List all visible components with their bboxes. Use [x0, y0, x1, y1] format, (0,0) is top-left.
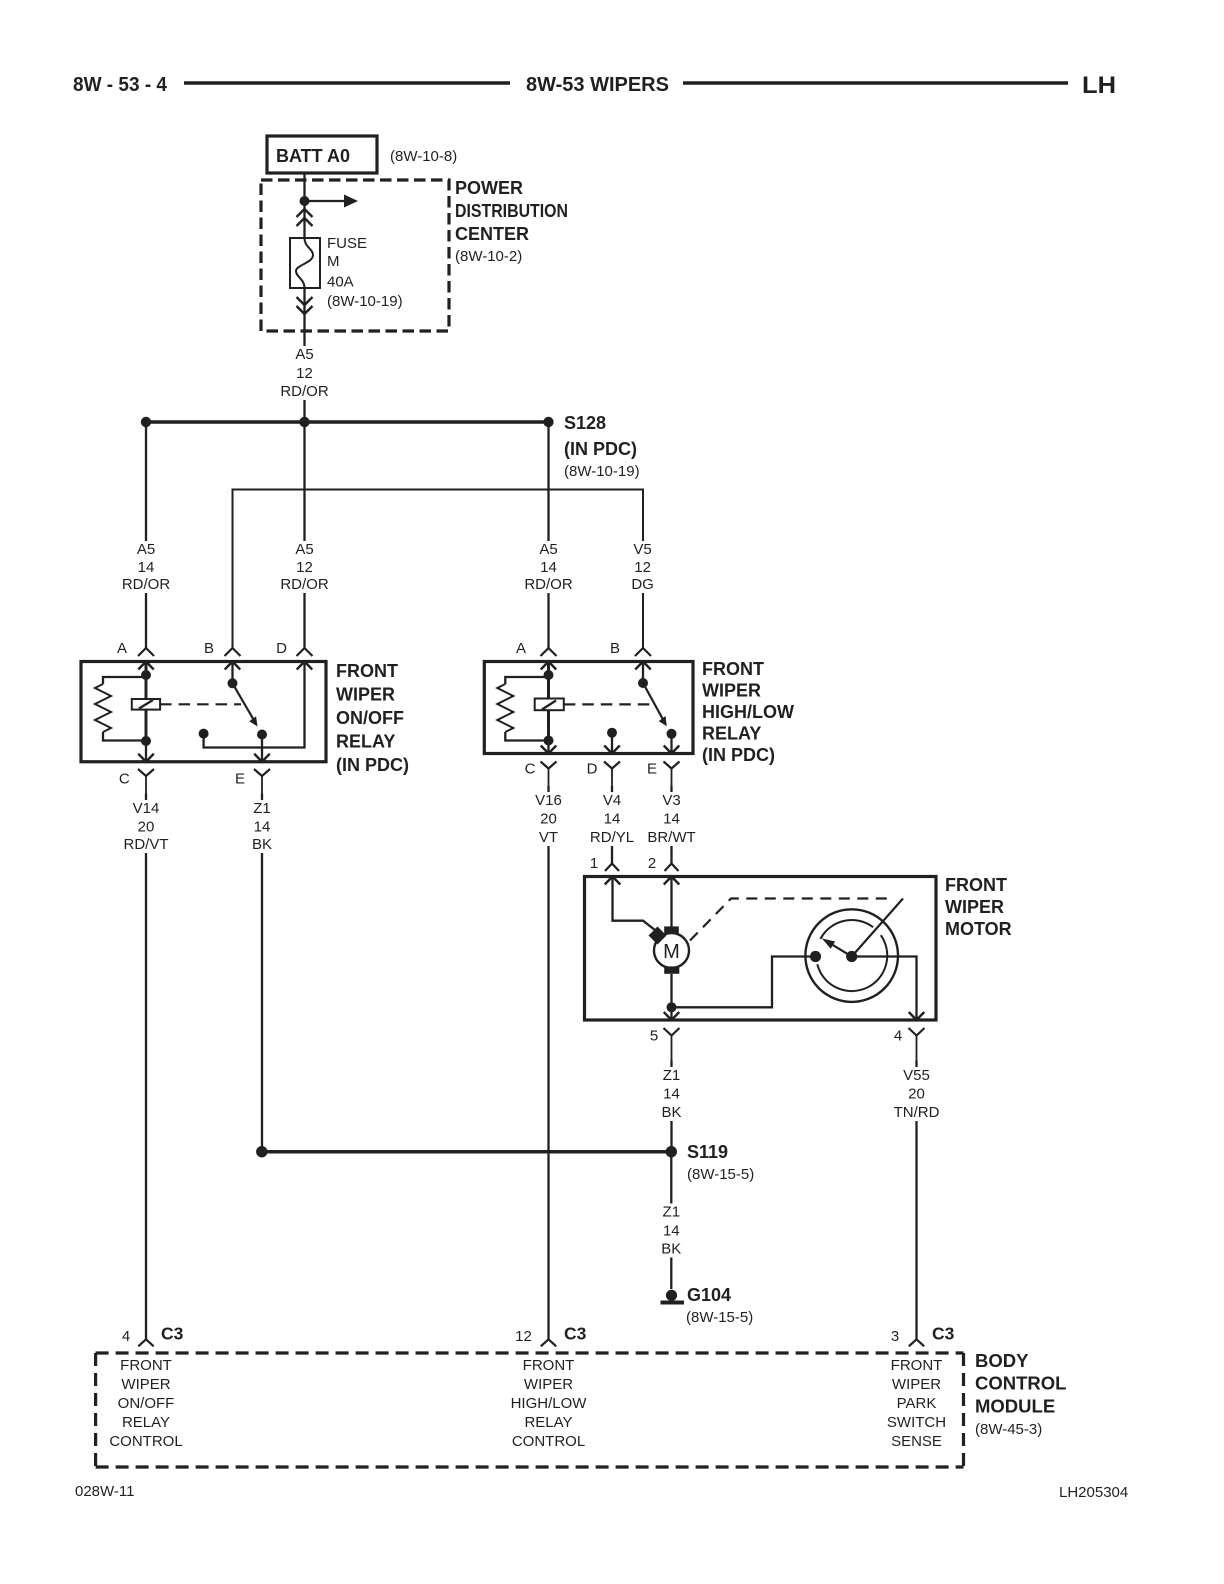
svg-text:FRONT: FRONT — [702, 659, 764, 679]
label POWER DISTRIBUTION CENTER — [455, 178, 568, 265]
label FRONT WIPER ON/OFF RELAY (IN PDC) — [336, 661, 409, 775]
wire S128 to relay2 pin A — [547, 422, 549, 648]
relay1 wire contact to pin D — [204, 662, 313, 748]
svg-text:S119: S119 — [687, 1142, 728, 1162]
svg-text:CENTER: CENTER — [455, 224, 529, 244]
svg-text:V5: V5 — [633, 541, 651, 558]
svg-text:12: 12 — [296, 559, 313, 576]
svg-text:M: M — [327, 253, 340, 270]
svg-text:LH205304: LH205304 — [1059, 1484, 1128, 1501]
splice S119 bus line — [262, 1150, 672, 1154]
svg-text:VT: VT — [539, 829, 558, 846]
relay1 coil junction dot top — [141, 670, 151, 680]
page number 8W-53-4 — [73, 74, 168, 96]
splice S128 bus line — [146, 420, 549, 424]
wire label V3 14 BR/WT — [646, 792, 697, 846]
svg-text:FUSE: FUSE — [327, 235, 367, 252]
header rule left — [184, 81, 510, 84]
relay2 resistor — [497, 677, 548, 741]
svg-text:V4: V4 — [603, 792, 621, 809]
wire label Z1 14 BK — [250, 800, 274, 853]
svg-text:RD/YL: RD/YL — [590, 829, 634, 846]
svg-text:M: M — [663, 941, 680, 963]
svg-text:RELAY: RELAY — [702, 724, 761, 744]
relay2 coil — [535, 699, 564, 711]
relay1 pin D connector — [276, 640, 312, 657]
motor pin 1 wire with arrow — [605, 877, 655, 931]
wire V16 20 VT relay2 C to BCM pin 12 — [547, 786, 549, 1339]
motor pin 5 connector — [650, 1028, 680, 1061]
relay1 contact dot E — [257, 730, 267, 740]
wire Z1 14 BK motor pin 5 to splice S119 — [670, 1061, 672, 1152]
svg-text:V55: V55 — [903, 1067, 930, 1084]
svg-text:A5: A5 — [539, 541, 557, 558]
svg-text:(IN PDC): (IN PDC) — [702, 745, 775, 765]
svg-text:RD/OR: RD/OR — [122, 576, 171, 593]
wire label A5 12 RD/OR — [279, 346, 330, 400]
label FRONT WIPER HIGH/LOW RELAY CONTROL — [511, 1357, 588, 1450]
svg-text:WIPER: WIPER — [945, 897, 1004, 917]
motor pin 2 wire with arrow — [664, 877, 680, 928]
svg-text:(8W-45-3): (8W-45-3) — [975, 1421, 1042, 1438]
wire label V16 20 VT — [532, 792, 565, 846]
svg-text:DG: DG — [631, 576, 654, 593]
park switch wiper arm — [822, 938, 852, 956]
svg-text:TN/RD: TN/RD — [894, 1104, 940, 1121]
relay1 switch arm — [233, 683, 258, 726]
wire Z1 14 BK S119 to ground — [670, 1152, 672, 1289]
wire V3 14 BR/WT relay2 E to motor pin 2 — [670, 786, 672, 864]
svg-text:14: 14 — [663, 1086, 680, 1103]
svg-text:HIGH/LOW: HIGH/LOW — [702, 702, 794, 722]
svg-text:RD/OR: RD/OR — [280, 576, 329, 593]
svg-text:BK: BK — [661, 1241, 681, 1258]
male connector chevrons above fuse — [297, 209, 313, 226]
svg-text:8W - 53 - 4: 8W - 53 - 4 — [73, 74, 168, 96]
motor pin 4 connector — [894, 1028, 925, 1061]
svg-text:CONTROL: CONTROL — [512, 1433, 585, 1450]
wire fuse to PDC exit — [303, 288, 305, 417]
svg-text:WIPER: WIPER — [524, 1376, 573, 1393]
relay1 contact dot NC — [199, 729, 209, 739]
junction dot S119 — [666, 1146, 677, 1157]
svg-text:3: 3 — [891, 1328, 899, 1345]
wire label Z1 14 BK lower — [659, 1204, 683, 1258]
battery feed BATT A0 — [267, 136, 377, 173]
BCM pin 12 connector C3 — [515, 1324, 586, 1347]
motor pin 1 connector — [590, 855, 619, 872]
relay2 pin D wire with arrow — [604, 733, 620, 754]
fuse M 40A — [290, 238, 320, 288]
relay U2 FRONT WIPER HIGH/LOW RELAY box — [484, 662, 693, 754]
label FRONT WIPER PARK SWITCH SENSE — [887, 1357, 946, 1450]
svg-text:(8W-10-2): (8W-10-2) — [455, 248, 522, 265]
relay1 pin C wire with arrow — [138, 741, 154, 762]
fuse labels FUSE M 40A (8W-10-19) — [327, 235, 403, 310]
label G104 (8W-15-5) — [686, 1285, 753, 1326]
relay2 coil junction dot bottom — [544, 736, 554, 746]
relay1 coil junction dot bottom — [141, 736, 151, 746]
svg-text:RELAY: RELAY — [524, 1414, 572, 1431]
svg-text:MODULE: MODULE — [975, 1396, 1055, 1417]
relay U1 FRONT WIPER ON/OFF RELAY box — [81, 662, 326, 762]
wire A5 12 RD/OR bus to relay1 pin D — [303, 422, 305, 648]
wire branch to relay pins B — [233, 490, 644, 649]
svg-text:C3: C3 — [932, 1324, 955, 1344]
relay2 pin C connector — [525, 761, 557, 787]
svg-text:V16: V16 — [535, 792, 562, 809]
relay2 pin C wire with arrow — [541, 741, 557, 754]
relay2 pin B wire with arrow — [635, 662, 651, 684]
svg-text:FRONT: FRONT — [891, 1357, 943, 1374]
svg-text:2: 2 — [648, 855, 656, 872]
relay2 pin A wire with arrow — [541, 662, 557, 741]
svg-text:Z1: Z1 — [663, 1067, 681, 1084]
relay1 pin B wire with arrow — [225, 662, 241, 684]
wire label Z1 14 BK — [660, 1067, 684, 1121]
label S119 (8W-15-5) — [687, 1142, 754, 1183]
mechanical linkage dashed — [690, 899, 894, 941]
svg-text:14: 14 — [540, 559, 557, 576]
svg-text:CONTROL: CONTROL — [975, 1373, 1066, 1394]
wire BATT A0 to fuse — [303, 173, 305, 238]
svg-text:RD/OR: RD/OR — [524, 576, 573, 593]
junction dot S128 — [543, 417, 553, 427]
svg-text:RD/OR: RD/OR — [280, 383, 329, 400]
svg-text:BATT A0: BATT A0 — [276, 146, 350, 166]
label FRONT WIPER ON/OFF RELAY CONTROL — [109, 1357, 182, 1450]
svg-text:A5: A5 — [137, 541, 155, 558]
svg-text:E: E — [647, 761, 657, 778]
svg-text:4: 4 — [894, 1028, 902, 1045]
wire V55 20 TN/RD motor pin 4 to BCM pin 3 — [915, 1061, 917, 1340]
svg-text:RELAY: RELAY — [336, 732, 395, 752]
svg-text:12: 12 — [296, 365, 313, 382]
wire motor ground to park switch contact — [672, 957, 816, 1008]
footer drawing number 028W-11 — [75, 1483, 134, 1500]
wire V4 14 RD/YL relay2 D to motor pin 1 — [611, 786, 613, 864]
page side label LH — [1082, 72, 1116, 99]
svg-text:20: 20 — [908, 1086, 925, 1103]
svg-text:A: A — [516, 640, 526, 657]
svg-text:(8W-15-5): (8W-15-5) — [687, 1166, 754, 1183]
svg-text:(8W-10-19): (8W-10-19) — [327, 293, 403, 310]
ground G104 — [661, 1290, 685, 1303]
motor ground wire to pin 5 — [664, 974, 680, 1020]
svg-text:14: 14 — [663, 811, 680, 828]
svg-text:B: B — [204, 640, 214, 657]
label FRONT WIPER HIGH/LOW RELAY (IN PDC) — [702, 659, 794, 765]
junction dot left — [141, 417, 151, 427]
relay2 pin D connector — [587, 761, 620, 787]
svg-text:POWER: POWER — [455, 178, 523, 198]
svg-text:DISTRIBUTION: DISTRIBUTION — [455, 201, 568, 221]
body control module dashed box — [96, 1353, 964, 1467]
svg-text:(8W-10-19): (8W-10-19) — [564, 463, 640, 480]
motor M — [654, 926, 689, 973]
svg-text:14: 14 — [663, 1223, 680, 1240]
motor pin 2 connector — [648, 855, 679, 872]
wire label V55 20 TN/RD — [891, 1067, 942, 1121]
park switch pivot dot — [846, 951, 857, 962]
wire label A5 14 RD/OR left — [121, 541, 172, 593]
junction dot middle — [299, 417, 309, 427]
arrow feed to other circuits — [305, 195, 359, 208]
svg-text:Z1: Z1 — [663, 1204, 681, 1221]
wire Z1 14 BK relay1 E to splice S119 — [261, 794, 263, 1152]
reference (8W-10-8) — [390, 148, 457, 165]
label BODY CONTROL MODULE (8W-45-3) — [975, 1350, 1066, 1438]
svg-text:40A: 40A — [327, 274, 354, 291]
svg-text:C: C — [525, 761, 536, 778]
relay2 contact dot D — [607, 728, 617, 738]
junction dot S119 left — [256, 1146, 267, 1157]
svg-text:BODY: BODY — [975, 1350, 1029, 1371]
svg-text:RD/VT: RD/VT — [124, 836, 169, 853]
svg-text:5: 5 — [650, 1028, 658, 1045]
label FRONT WIPER MOTOR — [945, 875, 1012, 939]
male connector chevrons below fuse — [297, 297, 313, 314]
svg-text:PARK: PARK — [897, 1395, 937, 1412]
svg-text:S128: S128 — [564, 413, 606, 433]
svg-text:14: 14 — [604, 811, 621, 828]
svg-text:E: E — [235, 771, 245, 788]
relay1 pin E wire with arrow — [254, 735, 270, 762]
park switch contact track — [817, 920, 887, 991]
svg-text:FRONT: FRONT — [120, 1357, 172, 1374]
svg-text:ON/OFF: ON/OFF — [118, 1395, 175, 1412]
svg-text:A: A — [117, 640, 127, 657]
svg-text:(8W-10-8): (8W-10-8) — [390, 148, 457, 165]
front wiper motor box — [585, 877, 937, 1021]
park switch contact dot — [810, 951, 821, 962]
relay2 coil to switch dashed link — [564, 703, 656, 705]
relay1 resistor — [95, 677, 146, 741]
svg-text:BK: BK — [661, 1104, 681, 1121]
wire park switch to pin 4 — [852, 957, 925, 1021]
motor brush contact — [649, 927, 667, 945]
svg-text:A5: A5 — [295, 346, 313, 363]
svg-text:SWITCH: SWITCH — [887, 1414, 946, 1431]
svg-text:12: 12 — [515, 1328, 532, 1345]
svg-text:WIPER: WIPER — [702, 681, 761, 701]
relay2 coil junction dot top — [544, 670, 554, 680]
svg-text:14: 14 — [138, 559, 155, 576]
wire V14 20 RD/VT relay1 C to BCM pin 4 — [145, 794, 147, 1340]
wire label V14 20 RD/VT — [121, 800, 172, 853]
wire label V5 12 DG — [631, 541, 655, 593]
svg-text:G104: G104 — [687, 1285, 731, 1305]
svg-text:WIPER: WIPER — [892, 1376, 941, 1393]
footer code LH205304 — [1059, 1484, 1128, 1501]
relay2 contact dot E — [667, 729, 677, 739]
svg-text:MOTOR: MOTOR — [945, 919, 1012, 939]
label S128 (IN PDC) (8W-10-19) — [564, 413, 640, 480]
relay1 pin A wire with arrow — [138, 662, 154, 742]
relay1 pin E connector — [235, 769, 270, 794]
relay1 coil to switch dashed link — [160, 703, 241, 705]
svg-text:WIPER: WIPER — [336, 685, 395, 705]
motor ground junction dot — [667, 1002, 677, 1012]
svg-text:20: 20 — [540, 811, 557, 828]
svg-text:WIPER: WIPER — [121, 1376, 170, 1393]
page title 8W-53 WIPERS — [526, 74, 669, 96]
relay1 pin B connector — [204, 640, 241, 657]
relay2 switch arm — [643, 683, 667, 726]
relay2 pin E wire with arrow — [664, 734, 680, 754]
svg-text:SENSE: SENSE — [891, 1433, 942, 1450]
BCM pin 4 connector C3 — [122, 1324, 184, 1347]
svg-text:C: C — [119, 771, 130, 788]
wire label A5 12 RD/OR middle — [279, 541, 330, 593]
svg-text:V3: V3 — [662, 792, 680, 809]
svg-text:14: 14 — [254, 819, 271, 836]
svg-text:12: 12 — [634, 559, 651, 576]
junction dot in PDC — [300, 196, 310, 206]
wire A5 14 RD/OR bus to relay1 pin A — [145, 422, 147, 648]
relay1 switch pivot dot — [228, 678, 238, 688]
wire label A5 14 RD/OR right — [523, 541, 574, 593]
mechanical linkage solid — [852, 899, 903, 957]
svg-text:BK: BK — [252, 836, 272, 853]
relay1 coil — [132, 699, 160, 710]
svg-text:LH: LH — [1082, 72, 1116, 99]
header rule right — [683, 81, 1068, 84]
svg-text:C3: C3 — [161, 1324, 184, 1344]
svg-text:CONTROL: CONTROL — [109, 1433, 182, 1450]
BCM pin 3 connector C3 — [891, 1324, 955, 1347]
relay1 pin C connector — [119, 769, 154, 794]
svg-text:(IN PDC): (IN PDC) — [336, 755, 409, 775]
svg-text:A5: A5 — [295, 541, 313, 558]
svg-text:4: 4 — [122, 1328, 130, 1345]
park switch outer circle — [805, 909, 898, 1002]
svg-text:B: B — [610, 640, 620, 657]
svg-text:D: D — [276, 640, 287, 657]
relay1 pin A connector — [117, 640, 154, 657]
relay2 pin B connector — [610, 640, 651, 657]
svg-text:Z1: Z1 — [253, 800, 271, 817]
svg-text:RELAY: RELAY — [122, 1414, 170, 1431]
wire label V4 14 RD/YL — [587, 792, 638, 846]
svg-text:C3: C3 — [564, 1324, 587, 1344]
relay2 switch pivot dot — [638, 678, 648, 688]
svg-text:ON/OFF: ON/OFF — [336, 708, 404, 728]
svg-text:FRONT: FRONT — [523, 1357, 575, 1374]
relay2 pin A connector — [516, 640, 557, 657]
relay2 pin E connector — [647, 761, 680, 787]
svg-text:1: 1 — [590, 855, 598, 872]
svg-text:V14: V14 — [133, 800, 160, 817]
svg-text:HIGH/LOW: HIGH/LOW — [511, 1395, 588, 1412]
svg-text:(8W-15-5): (8W-15-5) — [686, 1309, 753, 1326]
svg-text:D: D — [587, 761, 598, 778]
power distribution center dashed box — [261, 180, 449, 331]
svg-text:FRONT: FRONT — [945, 875, 1007, 895]
svg-text:028W-11: 028W-11 — [75, 1483, 134, 1500]
svg-text:FRONT: FRONT — [336, 661, 398, 681]
svg-text:20: 20 — [138, 819, 155, 836]
svg-text:8W-53 WIPERS: 8W-53 WIPERS — [526, 74, 669, 96]
svg-text:BR/WT: BR/WT — [647, 829, 695, 846]
svg-text:(IN PDC): (IN PDC) — [564, 439, 637, 459]
